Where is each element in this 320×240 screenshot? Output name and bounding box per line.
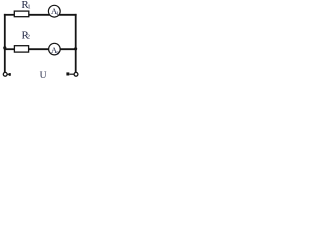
svg-text:2: 2 [56, 51, 59, 57]
svg-text:2: 2 [27, 34, 30, 41]
svg-text:U: U [40, 71, 47, 80]
svg-text:1: 1 [56, 11, 59, 17]
svg-text:1: 1 [27, 4, 30, 11]
